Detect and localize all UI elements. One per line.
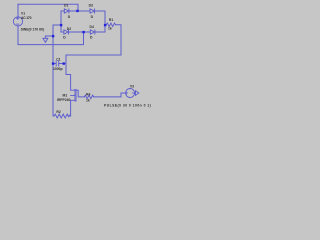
wire ground stub bbox=[45, 36, 53, 38]
diode D1 bbox=[64, 9, 68, 13]
wire drain stair-step bbox=[66, 64, 71, 91]
svg-text:D1: D1 bbox=[64, 3, 68, 7]
ground symbol near bridge bbox=[43, 38, 48, 42]
capacitor C1 bbox=[56, 61, 59, 66]
wire mosfet source down bbox=[70, 101, 72, 117]
transistor M1 (NMOS IRFP240) bbox=[71, 90, 75, 100]
svg-text:V3: V3 bbox=[130, 84, 134, 88]
svg-text:SINE(0 170 60): SINE(0 170 60) bbox=[21, 28, 44, 32]
diode D4 bbox=[90, 30, 94, 34]
resistor R2 bbox=[54, 114, 70, 118]
wire bridge top row bbox=[61, 11, 64, 17]
voltage source V1 bbox=[13, 17, 22, 26]
svg-text:C1: C1 bbox=[56, 57, 60, 61]
wire bridge left column bbox=[60, 15, 62, 32]
wire V1 bottom lead to AC bottom rail bbox=[18, 26, 84, 45]
wire R1 left lead bbox=[105, 24, 106, 26]
svg-text:R4: R4 bbox=[86, 93, 90, 97]
svg-text:M1: M1 bbox=[63, 93, 68, 97]
resistor R4 bbox=[84, 95, 93, 99]
voltage source V3 bbox=[126, 89, 135, 98]
wire ground column down to R2 bbox=[52, 64, 54, 117]
svg-text:1000p: 1000p bbox=[53, 67, 63, 71]
ground symbol at V3 (rotated, pointing right) bbox=[136, 91, 139, 96]
wire V1 top lead bbox=[17, 4, 19, 17]
diode D3 bbox=[90, 9, 94, 13]
svg-text:PULSE(0 30 0 100n 0 1): PULSE(0 30 0 100n 0 1) bbox=[104, 104, 151, 108]
svg-text:D3: D3 bbox=[89, 3, 93, 7]
junction dot right column out+ bbox=[104, 24, 106, 26]
wire C1 left lead bbox=[53, 63, 56, 65]
wire top from V1 to bridge bbox=[18, 4, 78, 11]
wire gate to R4 bbox=[76, 90, 84, 97]
background bbox=[0, 0, 160, 120]
wire R4 to V3 bbox=[94, 93, 126, 97]
svg-text:R2: R2 bbox=[56, 110, 60, 114]
wire out-minus from left column to ground column bbox=[53, 25, 61, 64]
junction dot top row AC node bbox=[76, 10, 78, 12]
wire R1 output down and left to drain node bbox=[66, 25, 121, 64]
svg-text:1k: 1k bbox=[86, 99, 90, 103]
wire C1 right lead bbox=[59, 63, 66, 65]
svg-text:D4: D4 bbox=[90, 25, 94, 29]
diode D2 bbox=[64, 30, 68, 34]
svg-text:IRFP240: IRFP240 bbox=[57, 98, 70, 102]
wire R2 leads bbox=[53, 115, 54, 117]
svg-text:R1: R1 bbox=[109, 18, 113, 22]
svg-text:1k: 1k bbox=[108, 26, 112, 30]
junction dot C1 right / drain node bbox=[63, 62, 65, 64]
junction dot bottom row AC node bbox=[82, 31, 84, 33]
wire bridge bottom row bbox=[69, 31, 90, 33]
svg-text:D2: D2 bbox=[67, 27, 71, 31]
svg-text:AC 170: AC 170 bbox=[21, 16, 32, 20]
junction dot C1 left bbox=[52, 62, 54, 64]
junction dot left column out- bbox=[60, 24, 62, 26]
resistor R1 bbox=[106, 23, 115, 27]
junction dot ground tap bbox=[52, 35, 54, 37]
